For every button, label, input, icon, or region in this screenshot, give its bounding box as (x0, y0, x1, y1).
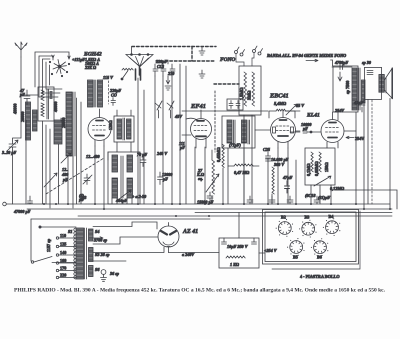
IF transformer T2 (222, 116, 255, 148)
capacitor 15000pF a (197, 192, 214, 205)
wire filter out (259, 252, 265, 254)
filter box 10uF (219, 238, 259, 268)
svg-text:22K Ω: 22K Ω (84, 65, 97, 70)
svg-text:210: 210 (167, 71, 175, 76)
svg-text:FONO: FONO (220, 57, 235, 63)
wire mid drops (168, 60, 186, 204)
switch contact X1 (155, 101, 162, 118)
tube EBC41 V3 (271, 110, 296, 148)
svg-text:+254 V: +254 V (264, 248, 278, 253)
svg-text:4 - PIASTRA BOLLO: 4 - PIASTRA BOLLO (300, 274, 340, 279)
svg-text:EF41: EF41 (190, 103, 206, 110)
capacitor 47000pF (13, 196, 33, 214)
svg-text:sp 7500: sp 7500 (345, 81, 350, 94)
transformer taps (56, 233, 76, 279)
tube ECH42 V1 (88, 109, 111, 146)
wires T2 drops (228, 148, 244, 204)
svg-text:AZ 41: AZ 41 (182, 229, 198, 235)
svg-text:B6: B6 (317, 255, 322, 260)
capacitor C25 (263, 147, 271, 162)
wire tuning drop (138, 78, 144, 204)
svg-text:12...480: 12...480 (86, 154, 101, 159)
capacitor 47pF (19, 88, 30, 105)
resistor row labels under ECH42 label (84, 57, 100, 70)
svg-text:240 V: 240 V (156, 151, 168, 156)
tube AZ41 V5 (158, 223, 179, 253)
antenna coil small A (20, 102, 31, 140)
svg-text:40000: 40000 (13, 104, 18, 114)
capacitor c (269, 196, 275, 204)
capacitor 1000pF (158, 172, 174, 185)
capacitor 10000pF 300V (266, 157, 289, 204)
wire EBC41 to EL41 coupling (296, 131, 322, 132)
svg-text:15000 pF: 15000 pF (197, 200, 214, 205)
trimmer capacitor 2..30pF (1, 138, 21, 155)
transformer secondary S4 (89, 229, 108, 243)
wire cap row drops (155, 76, 172, 204)
power transformer T4 primary (46, 228, 87, 279)
svg-text:1 KΩ: 1 KΩ (230, 262, 240, 267)
resistor 5,4M (269, 101, 297, 118)
triangle lead bars (136, 69, 141, 80)
bus line heater (31, 218, 210, 220)
svg-text:(81)µF: (81)µF (318, 195, 330, 200)
svg-text:110: 110 (60, 233, 66, 238)
antenna transformer box L1 (38, 87, 54, 121)
resistor 16K (122, 68, 133, 70)
wires output section drops (338, 98, 390, 209)
capacitor 70pF (137, 152, 147, 167)
svg-text:PHILIPS RADIO - Mod. BI. 390 A: PHILIPS RADIO - Mod. BI. 390 A - Media f… (14, 288, 386, 294)
svg-text:47000 pF: 47000 pF (13, 209, 31, 214)
oscillator coil box L3 (108, 152, 140, 204)
svg-text:CO: CO (111, 93, 117, 98)
mechanical dashed linkage (132, 47, 239, 153)
svg-text:+ a 2-30: + a 2-30 (132, 194, 147, 199)
svg-text:(71pF): (71pF) (229, 143, 241, 148)
wire T2 to EBC41 (255, 129, 271, 131)
svg-text:EL41: EL41 (306, 113, 320, 119)
wires fono box down (244, 115, 252, 204)
tube EL41 V4 (321, 112, 344, 148)
EL41 cathode network box (305, 148, 335, 185)
wires EF41 drops (195, 147, 205, 204)
mains switch S2 (31, 219, 76, 263)
svg-text:3700 sp: 3700 sp (93, 238, 107, 243)
volume potentiometer 0,5M (206, 150, 219, 204)
svg-text:40000: 40000 (53, 102, 58, 112)
junction dots (43, 203, 45, 205)
svg-text:0,45MΩ: 0,45MΩ (216, 147, 221, 162)
band switch nested wiring loops (35, 52, 70, 97)
pickup ground symbol (101, 270, 107, 282)
wires EBC41 drops (278, 148, 288, 204)
svg-text:43µF: 43µF (353, 100, 364, 105)
antenna coil small B (33, 110, 38, 131)
rotary switch S1a (49, 60, 69, 77)
svg-text:EBC41: EBC41 (269, 93, 289, 100)
svg-text:220: 220 (60, 273, 66, 278)
capacitor d (287, 196, 293, 204)
screen rail wire (182, 110, 300, 112)
heater wires to AZ41 (93, 222, 157, 229)
capacitor 43uF (353, 100, 365, 112)
svg-text:300 V: 300 V (273, 162, 285, 167)
capacitor e + label (314, 195, 330, 204)
transformer secondary S6 (89, 266, 119, 277)
ground near fono (199, 47, 205, 55)
FONO terminals (235, 46, 263, 66)
svg-text:C13: C13 (157, 64, 164, 69)
svg-text:20000: 20000 (61, 118, 66, 128)
svg-text:S6: S6 (95, 267, 100, 272)
svg-text:pF: pF (19, 92, 25, 97)
wires ECH42 drops (95, 146, 104, 208)
dashed drop under speaker box (371, 100, 373, 204)
svg-text:3..30 pF: 3..30 pF (1, 150, 17, 155)
trimmer arrow padder (118, 190, 131, 200)
arrow banda (306, 59, 318, 61)
trimmer arrow 12..480 (44, 173, 57, 187)
svg-text:0,03MΩ: 0,03MΩ (314, 161, 319, 176)
svg-text:C25: C25 (263, 147, 270, 152)
bus line B+ top (6, 203, 390, 205)
wire mains top (40, 226, 76, 228)
bus line mid (27, 208, 392, 210)
svg-text:10µF 350 V: 10µF 350 V (227, 244, 249, 249)
IF transformer T1 (114, 116, 134, 142)
RF coil L5 (98, 80, 103, 107)
ground arrow mid (165, 76, 171, 90)
svg-text:70 pF: 70 pF (137, 152, 147, 157)
wires EL41 box drops (311, 185, 331, 204)
svg-text:B3: B3 (305, 215, 310, 220)
output transformer T3 (333, 66, 365, 112)
antenna A1 (15, 42, 27, 57)
svg-text:1,5MΩ: 1,5MΩ (239, 87, 244, 100)
coil L3a (53, 92, 75, 156)
svg-text:B2: B2 (281, 215, 286, 220)
svg-text:0,47 MΩ: 0,47 MΩ (234, 170, 250, 175)
svg-text:36 sp: 36 sp (109, 271, 119, 276)
wire IF1 links (108, 110, 132, 204)
svg-text:254V: 254V (334, 108, 345, 113)
AVC return line (335, 190, 397, 209)
label 12..480 pF (61, 167, 69, 182)
wire filter top (238, 213, 240, 239)
svg-text:+111pF: +111pF (72, 57, 85, 62)
wire band switch drops (43, 98, 82, 208)
wire AZ41 to filter (169, 252, 220, 254)
svg-text:eq.: eq. (198, 176, 203, 181)
trimmer cap osc (83, 174, 92, 185)
label 254V (346, 136, 364, 141)
socket B2 (276, 215, 294, 237)
speaker field box (365, 67, 385, 99)
resistor below 10000pF (272, 167, 274, 194)
switch blade S1b (121, 71, 128, 81)
caps 220pF CO (109, 88, 121, 106)
svg-text:B5: B5 (293, 255, 298, 260)
capacitor 4700pF (332, 60, 352, 70)
tuning capacitor gang C1 (126, 47, 153, 76)
svg-text:B4: B4 (329, 214, 335, 219)
svg-text:5,4MΩ: 5,4MΩ (274, 101, 287, 106)
socket B3 (299, 215, 317, 238)
decoupling box (227, 99, 243, 110)
coil L2 (54, 120, 62, 144)
resistor 0,45M vertical (216, 144, 224, 204)
svg-text:sp 30: sp 30 (361, 60, 372, 65)
resistor box R fono (239, 66, 261, 115)
svg-text:pF: pF (302, 126, 308, 131)
resistor 0,47M (228, 164, 259, 175)
label 47uF (282, 160, 296, 204)
capacitor 15000pF b (247, 196, 253, 204)
svg-text:µF: µF (78, 197, 84, 202)
capacitor 10000pF grid (290, 122, 312, 133)
socket B5 (287, 238, 305, 259)
svg-text:0,1MΩ: 0,1MΩ (306, 163, 311, 176)
bus line segment (195, 212, 392, 214)
svg-text:120Ω: 120Ω (108, 120, 113, 130)
socket panel box (263, 210, 361, 270)
svg-text:BANDA ALL. RV-34 GENTE MEDIE: BANDA ALL. RV-34 GENTE MEDIE FONO (266, 53, 346, 58)
svg-text:47µF: 47µF (282, 175, 293, 180)
svg-text:140: 140 (60, 250, 66, 255)
svg-text:45V: 45V (174, 114, 183, 119)
svg-text:4700pF: 4700pF (334, 60, 348, 65)
potentiometer tone arrow (314, 176, 331, 186)
transformer secondary S3 (89, 248, 110, 262)
switch contact X2 (167, 101, 174, 118)
bus line lower (78, 215, 392, 217)
padding capacitors row (153, 59, 175, 76)
wire EL41 plate right (344, 130, 356, 132)
ground 2 (199, 70, 205, 78)
socket B4 (323, 214, 341, 236)
dashed band indicator (108, 77, 110, 104)
wire antenna to coil (21, 95, 38, 204)
svg-text:125: 125 (60, 242, 66, 247)
dashed gang line (46, 158, 104, 194)
tube EF41 V2 (182, 110, 212, 148)
socket B6 (311, 238, 329, 259)
svg-text:1157 sp: 1157 sp (46, 238, 51, 252)
svg-text:S1: S1 (68, 229, 72, 234)
svg-text:170: 170 (60, 266, 66, 271)
svg-text:S4: S4 (95, 229, 99, 234)
RF coil L4 (88, 80, 96, 107)
speaker (384, 68, 392, 98)
wire coil returns to bus (59, 118, 74, 208)
wire antenna to bus (13, 57, 22, 204)
terminal dot left bus (3, 202, 7, 206)
svg-text:150Ω: 150Ω (324, 162, 329, 172)
svg-text:3MΩ: 3MΩ (247, 90, 252, 100)
switch contact arrow left (61, 153, 71, 163)
